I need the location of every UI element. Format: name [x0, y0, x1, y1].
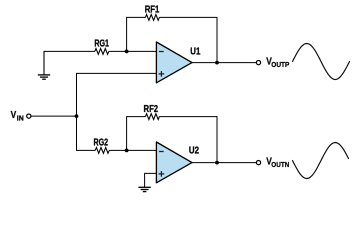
svg-text:OUTN: OUTN [271, 160, 289, 169]
svg-text:RG1: RG1 [94, 38, 109, 49]
wire: U1 output to VOUTP terminal [192, 62, 257, 64]
svg-text:RF1: RF1 [145, 5, 160, 16]
svg-text:V: V [11, 109, 17, 121]
svg-text:RF2: RF2 [144, 104, 159, 115]
op-amp U1 [156, 42, 192, 83]
terminal VOUTN [256, 161, 260, 165]
waveform: VOUTP sine [293, 44, 350, 80]
svg-text:U1: U1 [190, 47, 200, 58]
wire: RF2 left branch (up from inverting node) [127, 117, 146, 151]
resistor RF1 [145, 15, 159, 21]
wire: junction to U1 minus input [127, 50, 157, 52]
ground GND2 (below U2) [138, 187, 150, 191]
resistor RG1 [95, 49, 109, 55]
resistor RF2 [145, 114, 159, 120]
wire: VIN terminal to junction [31, 115, 76, 117]
wire: U2 plus input to ground [145, 173, 157, 187]
wire: RG1 to U1 inverting input node [109, 50, 127, 52]
node: VIN junction [75, 114, 79, 118]
wire: RF2 right branch (down to U2 output) [159, 117, 217, 163]
op-amp U2 [156, 142, 192, 183]
wire: RG2 to U2 inverting input node [109, 149, 126, 151]
node: U1 output junction [215, 61, 219, 65]
waveform: VOUTN sine [293, 143, 349, 179]
node: U2 inverting input junction [125, 149, 129, 153]
node: U2 output junction [215, 161, 219, 165]
terminal VOUTP [256, 61, 260, 65]
node: U1 inverting input junction [125, 50, 129, 54]
wire: U2 output to VOUTN terminal [192, 162, 257, 164]
wire: ground GND1 to resistor RG1 [44, 50, 95, 52]
wire: VIN junction up to U1 plus input [77, 73, 157, 116]
wire: RF1 left branch (up from inverting node) [127, 17, 146, 51]
svg-text:OUTP: OUTP [271, 60, 289, 69]
svg-text:U2: U2 [189, 146, 199, 157]
wire: VIN junction down to RG2 [77, 116, 96, 150]
resistor RG2 [95, 148, 109, 154]
wire: RF1 right branch (down to U1 output) [159, 17, 217, 62]
ground GND1 (left) [38, 51, 50, 79]
svg-text:RG2: RG2 [94, 137, 109, 148]
wire: junction to U2 minus input [127, 149, 157, 151]
terminal VIN [27, 114, 31, 118]
svg-text:IN: IN [17, 113, 24, 122]
